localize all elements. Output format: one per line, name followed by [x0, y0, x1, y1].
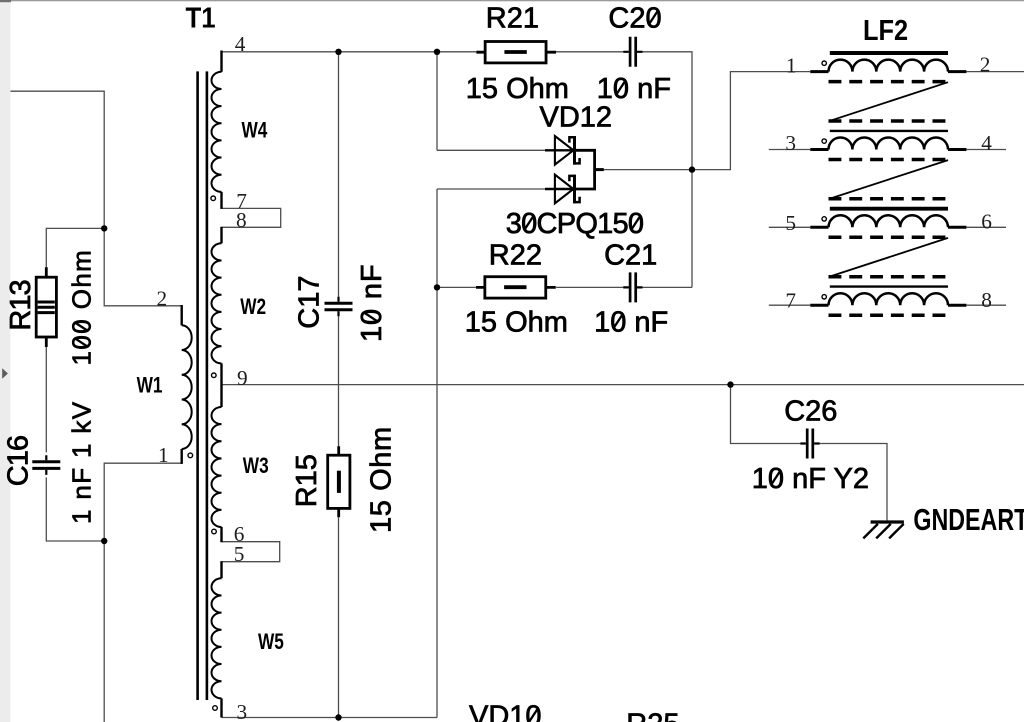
wire LF2 pin 6 lead	[966, 226, 1006, 228]
svg-text:C17: C17	[294, 275, 326, 328]
svg-text:9: 9	[237, 366, 248, 390]
wire LF2 pin 7 lead	[769, 304, 811, 306]
label C20	[608, 3, 661, 35]
inductor LF2 winding 3-4	[810, 148, 966, 151]
label C16	[3, 436, 35, 486]
wire pin 9 net to C26	[731, 385, 805, 444]
wire C26 to earth ground	[816, 444, 888, 521]
svg-text:GNDEARTH: GNDEARTH	[913, 502, 1024, 537]
earth ground symbol GNDEARTH	[871, 520, 904, 523]
wire C17 branch top	[338, 52, 340, 302]
wire jumper pins 6-5	[222, 542, 280, 562]
capacitor C26	[807, 429, 813, 459]
LF2 dashed core row 1	[829, 80, 949, 84]
svg-text:W1: W1	[137, 373, 163, 398]
inductor LF2 winding 7-8	[810, 304, 966, 307]
wire C16 bottom to left bus	[46, 477, 104, 541]
LF2 dashed core row 4	[829, 313, 949, 317]
transformer T1 core line left	[196, 71, 199, 700]
resistor R15	[328, 455, 350, 508]
LF2 polarity dot row 4	[822, 295, 826, 299]
LF2 core bar row 3	[830, 207, 948, 211]
svg-text:10 nF: 10 nF	[356, 264, 388, 342]
svg-text:10 nF: 10 nF	[594, 306, 668, 338]
wire LF2 pin 4 lead	[966, 149, 1006, 151]
LF2 coupling diagonal 2/3	[829, 160, 948, 199]
svg-text:8: 8	[236, 208, 247, 232]
LF2 core bar row 4	[830, 285, 948, 287]
svg-text:7: 7	[785, 289, 796, 313]
LF2 coupling diagonal 3/4	[829, 238, 948, 277]
label T1 winding label W1	[137, 373, 163, 398]
wire C17 to R15	[338, 311, 340, 446]
svg-text:3: 3	[237, 700, 248, 722]
capacitor C20	[630, 37, 636, 67]
wire LF2 pin 5 lead	[769, 226, 811, 228]
wire T1 pin 9 net	[222, 384, 1024, 386]
label T1	[186, 1, 216, 34]
label T1 winding label W2	[240, 295, 266, 320]
svg-text:2: 2	[157, 287, 168, 311]
wire T1 pin 3 net	[222, 717, 438, 719]
T1 W4 polarity dot	[211, 196, 216, 201]
svg-text:8: 8	[981, 288, 992, 312]
wire R22 to C21	[556, 286, 629, 288]
wire C20 to C21 right bus	[637, 52, 692, 288]
wire T1 pin 4 to R21	[222, 51, 477, 53]
VD12 common-cathode bracket and output pin	[575, 150, 595, 189]
LF2 core bar row 1	[830, 51, 948, 55]
label R15	[291, 454, 323, 507]
svg-text:5: 5	[234, 542, 245, 566]
label R13	[5, 280, 37, 330]
wire VD12 lower anode stub	[437, 188, 546, 190]
node junction left bus/R13	[101, 225, 107, 231]
label R13 value	[67, 249, 97, 366]
svg-text:R25: R25	[626, 709, 679, 722]
svg-text:1: 1	[786, 54, 797, 78]
transformer T1 winding W2	[220, 227, 222, 244]
inductor LF2 winding 1-2	[810, 70, 966, 73]
T1 W1 polarity dot	[188, 453, 193, 458]
wire junction to R13 top	[46, 228, 104, 267]
svg-text:LF2: LF2	[863, 13, 908, 46]
wire to VD12 upper anode	[437, 149, 546, 151]
node junction R22 branch	[434, 284, 440, 290]
wire R15 to pin 3 net	[338, 517, 340, 717]
svg-text:T1: T1	[186, 1, 216, 34]
LF2 dashed core row 2	[829, 158, 949, 162]
svg-text:4: 4	[981, 131, 992, 155]
label R21 value	[466, 73, 569, 105]
label T1 winding label W5	[258, 630, 284, 655]
svg-text:100 Ohm: 100 Ohm	[67, 249, 97, 366]
transformer T1 winding W1	[180, 305, 182, 325]
wire T1 pin 1 to left bus / bottom edge	[104, 463, 182, 722]
label R25 (cut off)	[626, 709, 679, 722]
wire LF2 pin 2 lead	[966, 71, 1024, 73]
transformer T1 winding W3	[212, 407, 222, 527]
svg-text:15 Ohm: 15 Ohm	[465, 306, 568, 338]
label C17	[294, 275, 326, 328]
svg-text:W5: W5	[258, 630, 284, 655]
capacitor C21	[630, 272, 636, 302]
node junction pin9/C26	[727, 381, 733, 387]
wire jumper pins 7-8	[222, 208, 281, 227]
resistor R22	[485, 277, 546, 298]
label VD10 (cut off)	[469, 701, 542, 722]
wire left edge to T1 pin 2	[11, 91, 182, 306]
label VD12 value	[506, 208, 644, 240]
wire VD12 lower anode down to pin 3 net	[436, 189, 438, 718]
svg-text:30CPQ150: 30CPQ150	[506, 208, 644, 240]
label T1 winding label W3	[243, 454, 269, 479]
svg-text:R21: R21	[486, 3, 539, 35]
node junction pin4/C17	[335, 49, 341, 55]
label R15 value	[365, 426, 397, 533]
svg-text:4: 4	[235, 32, 246, 56]
svg-text:1: 1	[158, 443, 169, 467]
svg-text:1 nF 1 kV: 1 nF 1 kV	[67, 401, 97, 524]
svg-text:10 nF Y2: 10 nF Y2	[752, 463, 869, 495]
svg-text:C21: C21	[604, 239, 657, 271]
transformer T1 winding W4	[220, 51, 222, 72]
resistor R21	[485, 42, 546, 63]
wire R13 bottom to C16 top	[45, 347, 47, 453]
label C26 value	[752, 463, 869, 495]
svg-text:2: 2	[980, 52, 991, 76]
wire R21 to C20	[556, 51, 629, 53]
LF2 polarity dot row 2	[822, 139, 826, 143]
node junction pin4/VD12	[434, 49, 440, 55]
svg-text:W3: W3	[243, 454, 269, 479]
T1 W3 polarity dot	[212, 529, 217, 534]
svg-text:R15: R15	[291, 454, 323, 507]
svg-text:5: 5	[785, 211, 796, 235]
capacitor C16	[32, 462, 60, 469]
label C16 value	[67, 401, 97, 524]
capacitor C17	[325, 303, 353, 310]
label C17 value	[356, 264, 388, 342]
svg-text:W2: W2	[240, 295, 266, 320]
wire C21 to right bus	[637, 286, 692, 288]
diode VD12 lower schottky diode	[545, 188, 575, 190]
svg-text:10 nF: 10 nF	[597, 73, 671, 105]
node junction VD12 out/RC bus	[689, 166, 695, 172]
label T1 winding label W4	[242, 118, 268, 143]
label C21	[604, 239, 657, 271]
wire junction to R22	[437, 286, 476, 288]
LF2 polarity dot row 3	[822, 217, 826, 221]
label C26	[784, 396, 837, 428]
svg-text:C26: C26	[784, 396, 837, 428]
resistor R13	[36, 277, 56, 337]
label R21	[486, 3, 539, 35]
label GNDEARTH net label	[913, 502, 1024, 537]
wire VD12 output to LF2 pin 1	[604, 72, 811, 170]
T1 W5 polarity dot	[213, 706, 218, 711]
label C20 value	[597, 73, 671, 105]
svg-text:15 Ohm: 15 Ohm	[365, 426, 397, 533]
label LF2	[863, 13, 908, 46]
svg-text:3: 3	[785, 131, 796, 155]
LF2 dashed core row 3	[829, 236, 949, 240]
node junction left bus/C16	[101, 538, 107, 544]
transformer T1 winding W5	[220, 561, 222, 578]
label R22	[489, 239, 542, 271]
svg-text:R22: R22	[489, 239, 542, 271]
wire LF2 pin 8 lead	[966, 304, 1006, 306]
LF2 polarity dot row 1	[822, 61, 826, 65]
svg-text:W4: W4	[242, 118, 268, 143]
label C21 value	[594, 306, 668, 338]
svg-text:C16: C16	[3, 436, 35, 486]
wire LF2 pin 3 lead	[769, 149, 811, 151]
inductor LF2 winding 5-6	[810, 226, 966, 229]
svg-text:15 Ohm: 15 Ohm	[466, 73, 569, 105]
label VD12	[540, 102, 613, 134]
svg-text:VD12: VD12	[540, 102, 613, 134]
wire pin4 junction down to VD12 upper anode	[436, 52, 438, 151]
svg-text:R13: R13	[5, 280, 37, 330]
label R22 value	[465, 306, 568, 338]
LF2 coupling diagonal 1/2	[829, 82, 948, 121]
svg-text:6: 6	[981, 210, 992, 234]
LF2 core bar row 2	[830, 130, 948, 132]
diode VD12 upper schottky diode	[545, 149, 575, 151]
transformer T1 core line right	[206, 71, 209, 700]
node junction pin3/R15	[335, 714, 341, 720]
T1 W2 polarity dot	[212, 373, 217, 378]
